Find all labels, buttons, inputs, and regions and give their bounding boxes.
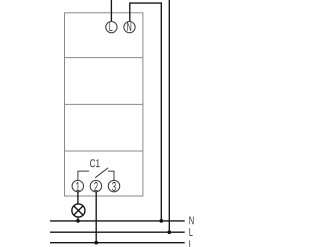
bus line L (switched circuit) bbox=[50, 242, 185, 244]
wire: L riser from top edge down to L bus bbox=[168, 0, 170, 232]
wire: terminal N loop up-over-down to N bus bbox=[130, 3, 162, 221]
terminal 3 bbox=[108, 180, 120, 192]
terminal 1 bbox=[72, 180, 84, 192]
module section divider 2 bbox=[65, 103, 143, 105]
wire: terminal 1 down to lamp bbox=[77, 192, 79, 204]
lamp E1 (circle with cross) bbox=[72, 204, 85, 217]
relay contact label C1 bbox=[90, 159, 100, 167]
contact fixed arm from terminal 3 bbox=[108, 171, 114, 180]
junction: terminal 2 wire to switched bus bbox=[94, 241, 98, 245]
wire: terminal 2 down to switched-line bus bbox=[95, 192, 97, 243]
net label L (bottom, clipped) bbox=[189, 240, 192, 247]
contact movable arm (switch blade) bbox=[95, 168, 108, 178]
terminal 2 bbox=[90, 180, 102, 192]
bus line L bbox=[50, 231, 185, 233]
terminal L bbox=[106, 21, 117, 32]
terminal N bbox=[124, 21, 135, 32]
junction: L riser to L bus bbox=[167, 230, 171, 234]
wire: lamp down to N bus bbox=[77, 217, 79, 221]
contact fixed arm from terminal 1 bbox=[78, 171, 89, 180]
net label L bbox=[189, 228, 192, 236]
junction: N riser to N bus bbox=[159, 219, 163, 223]
module section divider 3 bbox=[65, 150, 143, 152]
device outline (relay module U1) bbox=[65, 13, 143, 196]
bus line N bbox=[50, 220, 185, 222]
net label N bbox=[189, 216, 193, 224]
module section divider 1 bbox=[65, 57, 143, 59]
junction: lamp to N bus bbox=[76, 219, 80, 223]
wire: supply feed to terminal L bbox=[110, 0, 112, 21]
